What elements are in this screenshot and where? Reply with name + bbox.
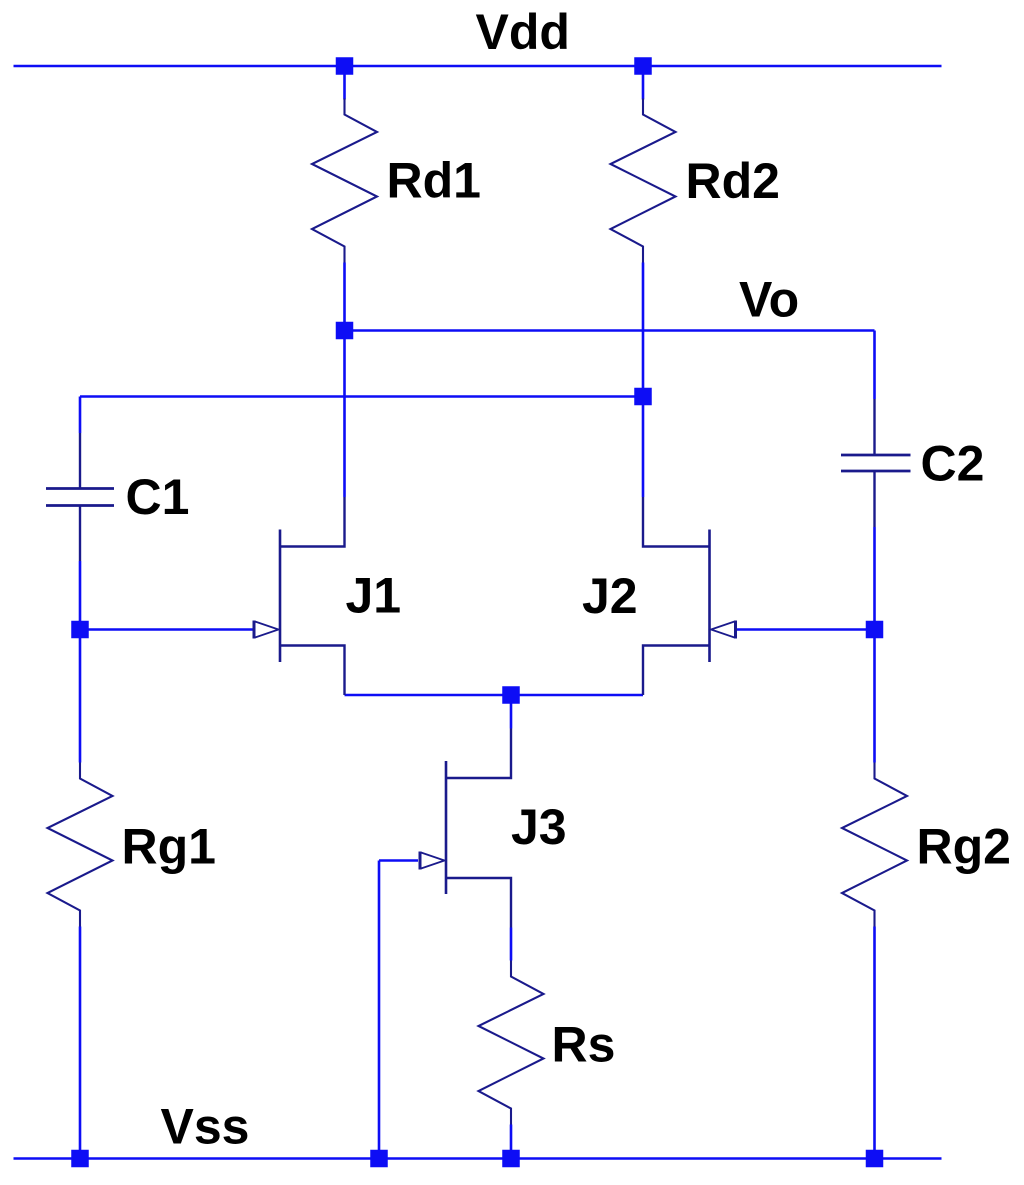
svg-text:J3: J3 <box>511 799 567 855</box>
wire node A down to J1 drain <box>343 331 346 498</box>
wire C2 bottom to node D <box>873 527 876 630</box>
capacitor C1 <box>46 433 114 561</box>
node A Rd1-Vo <box>336 322 354 340</box>
wire source bus J1 to J2 <box>345 694 644 697</box>
node junction Vss-Rg1 <box>71 1150 89 1168</box>
resistor Rd1 <box>312 99 377 263</box>
resistor Rg2 <box>842 763 907 927</box>
wire node D to Rg2 top <box>873 630 876 763</box>
svg-text:J1: J1 <box>346 568 402 624</box>
svg-text:Rd2: Rd2 <box>686 153 780 209</box>
wire J2 gate <box>737 628 875 631</box>
node D C2-gate-Rg2 <box>866 621 884 639</box>
transistor J1 <box>254 497 345 695</box>
transistor J2 <box>643 497 736 695</box>
node junction Vss-J3 gate <box>370 1150 388 1168</box>
node B gate wire to Rd2 leg <box>634 388 652 406</box>
resistor Rs <box>479 961 544 1125</box>
svg-text:Rg1: Rg1 <box>122 819 216 875</box>
wire Vdd rail to Rd1 top <box>343 66 346 100</box>
wire Rd1 bottom to node A <box>343 263 346 331</box>
wire Vo corner down to C2 <box>873 331 876 400</box>
wire C1 bottom to node C <box>79 561 82 630</box>
svg-text:Rg2: Rg2 <box>917 819 1011 875</box>
wire gate cross horizontal to node B <box>80 395 643 398</box>
svg-text:C2: C2 <box>921 436 985 492</box>
resistor Rg1 <box>48 763 113 927</box>
svg-text:C1: C1 <box>126 469 190 525</box>
transistor J3 <box>420 729 511 928</box>
svg-text:J2: J2 <box>582 568 638 624</box>
svg-text:Vss: Vss <box>161 1099 250 1155</box>
svg-text:Vdd: Vdd <box>476 4 570 60</box>
node E sources to J3 <box>502 686 520 704</box>
wire Rg2 bottom to Vss rail <box>873 927 876 1159</box>
node junction Vdd-Rd2 <box>634 57 652 75</box>
wire Vdd rail to Rd2 top <box>642 66 645 100</box>
node junction Vss-Rs <box>502 1150 520 1168</box>
wire J3 source to Rs top <box>510 928 513 961</box>
wire Rg1 bottom to Vss rail <box>79 927 82 1159</box>
wire Vss rail <box>14 1157 942 1160</box>
wire Rd2 bottom through node B to J2 drain <box>642 263 645 498</box>
node C C1-gate-Rg1 <box>71 621 89 639</box>
wire node E to J3 drain <box>510 695 513 729</box>
wire left corner down to C1 top <box>79 397 82 434</box>
wire Rs bottom to Vss rail <box>510 1125 513 1159</box>
svg-text:Vo: Vo <box>739 272 799 328</box>
node junction Vdd-Rd1 <box>336 57 354 75</box>
capacitor C2 <box>841 399 911 527</box>
wire J1 gate <box>80 628 253 631</box>
wire J3 gate down to Vss rail <box>378 861 381 1159</box>
wire J3 gate horizontal <box>379 859 418 862</box>
node junction Vss-Rg2 <box>866 1150 884 1168</box>
svg-text:Rs: Rs <box>552 1017 616 1073</box>
wire Vo horizontal <box>345 329 875 332</box>
svg-text:Rd1: Rd1 <box>387 153 481 209</box>
wire Vdd rail <box>14 65 942 68</box>
resistor Rd2 <box>611 99 676 263</box>
wire node C to Rg1 top <box>79 630 82 763</box>
